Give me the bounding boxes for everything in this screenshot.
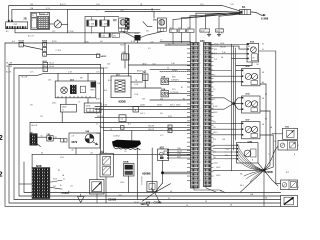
- svg-text:BL-OR: BL-OR: [22, 77, 28, 79]
- fuse 11/4B left: [87, 20, 97, 26]
- cluster sub box: [80, 86, 85, 93]
- svg-text:34/16: 34/16: [134, 202, 139, 204]
- cluster bottom pins: [57, 96, 59, 98]
- wire relay2 diag: [141, 32, 163, 38]
- svg-text:24: 24: [96, 123, 98, 125]
- connector 2/24 box: [6, 22, 28, 29]
- wire vertical x103 long: [103, 68, 105, 153]
- svg-text:2.5: 2.5: [213, 89, 215, 91]
- sub box 11/4B a: [99, 33, 111, 37]
- wire 6/32 right down: [260, 111, 270, 170]
- svg-text:B+: B+: [221, 33, 223, 35]
- wire elbow to chime: [29, 123, 31, 134]
- wire 6/26 right down: [260, 84, 266, 170]
- wire row y73: [19, 73, 143, 75]
- svg-text:I-MA GN 24: I-MA GN 24: [140, 176, 143, 185]
- svg-text:1.5: 1.5: [160, 40, 162, 42]
- wire top feed 2b: [68, 8, 160, 10]
- wire top feed 1: [9, 6, 240, 21]
- svg-text:B3: B3: [265, 119, 267, 121]
- fuse 117: [178, 29, 186, 33]
- wires 6/37 left: [232, 122, 242, 124]
- motor 6/26 box: [242, 69, 261, 86]
- svg-text:4: 4: [200, 54, 201, 56]
- wire from chain C right: [47, 53, 100, 55]
- wire to 2-268: [251, 12, 264, 15]
- svg-text:1.33: 1.33: [96, 72, 99, 74]
- wire bend into 6/28: [31, 154, 33, 167]
- wire diag box1 to chain: [23, 46, 42, 50]
- svg-text:63DB: 63DB: [119, 100, 126, 104]
- junction 24DB box: [135, 35, 141, 41]
- box 7/50: [283, 128, 298, 139]
- connector 64DB sub cells: [87, 108, 100, 112]
- wire fuse drops a: [91, 17, 93, 20]
- wire hatched box up: [96, 154, 98, 179]
- svg-text:1.33: 1.33: [68, 72, 72, 74]
- wire drops to fuses right: [206, 13, 241, 29]
- wire dashed y71: [160, 71, 191, 73]
- motor unit top pins: [247, 44, 249, 46]
- wire 6/28 right 1: [50, 181, 62, 183]
- relay 5/2B2 box: [161, 91, 169, 97]
- sub box 11/2 b: [112, 33, 120, 37]
- cluster pin block: [91, 82, 96, 88]
- wire relay2 right: [169, 93, 191, 95]
- wire 60B top: [105, 152, 107, 154]
- fuse 11/4B right: [100, 20, 110, 26]
- relay 2/60 box: [158, 18, 167, 28]
- junction fan to 5/38 pins: [237, 145, 264, 170]
- wire ladder to bundle c: [211, 81, 236, 83]
- relay 5/2B box: [161, 78, 169, 84]
- wire bundle riser 115: [173, 13, 240, 20]
- wire bundle converge 4: [196, 12, 240, 14]
- svg-text:.40: .40: [71, 150, 73, 152]
- svg-text:24/2B: 24/2B: [140, 105, 145, 107]
- svg-text:4: 4: [200, 153, 201, 155]
- clock box: [47, 136, 53, 141]
- svg-text:34D3: 34D3: [176, 105, 180, 107]
- wire bus1: [5, 42, 191, 44]
- svg-text:GN-GR: GN-GR: [148, 126, 155, 128]
- svg-text:4: 4: [200, 117, 201, 119]
- vertical bundle right 3: [235, 48, 237, 140]
- wire hatched box down: [96, 194, 98, 203]
- box 5/38 pins: [237, 144, 239, 146]
- svg-text:1 1/4B: 1 1/4B: [89, 23, 95, 25]
- wire pump down: [75, 148, 77, 154]
- wire bus1 lower branch: [165, 44, 191, 46]
- cluster gauge dark symbol: [70, 85, 77, 94]
- junction 2200K dot: [263, 169, 266, 172]
- svg-text:24: 24: [110, 129, 112, 131]
- wire 64DC down: [61, 112, 63, 123]
- svg-text:1: 1: [32, 20, 33, 22]
- wire ladder feeds up: [195, 13, 197, 42]
- wire busrow y109: [95, 108, 191, 110]
- wire left bundle 1 / bottom bus 5: [5, 43, 281, 206]
- svg-text:4T: 4T: [96, 113, 98, 115]
- wire left bundle 2 / bottom bus 4: [9, 65, 281, 204]
- pump symbol: [85, 134, 94, 143]
- connector C17/12 black blob: [112, 140, 141, 149]
- svg-text:11/2: 11/2: [113, 36, 116, 38]
- svg-text:X/1: X/1: [96, 10, 99, 12]
- fuse box grid: [37, 17, 49, 29]
- svg-text:24-TR: 24-TR: [177, 151, 182, 153]
- pin sq right b: [168, 129, 172, 132]
- box 4/21 pins: [167, 149, 168, 150]
- motor unit top box: [247, 43, 259, 62]
- relay 2/50 box: [119, 18, 128, 28]
- wire blob up: [131, 131, 133, 141]
- svg-text:-24: -24: [124, 151, 127, 153]
- junction box 1: [19, 42, 23, 47]
- wire chime tail: [37, 144, 40, 146]
- svg-text:2.8: 2.8: [72, 136, 74, 138]
- ground triangle left: [78, 197, 85, 203]
- fuse box 11/32 b: [216, 29, 224, 32]
- svg-text:7-40: 7-40: [120, 10, 123, 12]
- box 60B hatched cell 1: [103, 157, 111, 165]
- svg-text:B1: B1: [181, 87, 183, 89]
- svg-text:7-40: 7-40: [152, 63, 155, 65]
- svg-text:25/1: 25/1: [48, 79, 51, 81]
- svg-text:7/45: 7/45: [143, 71, 147, 74]
- svg-text:11: 11: [32, 15, 34, 17]
- svg-text:1: 1: [244, 100, 245, 102]
- wire vertical x137: [136, 148, 138, 200]
- wire left bundle 4 / bottom bus 2: [19, 75, 281, 196]
- svg-text:30: 30: [205, 201, 207, 203]
- wire 60B down: [105, 177, 107, 203]
- wire left bundle 3 / bottom bus 3: [14, 68, 281, 200]
- wire bundle riser 119: [190, 14, 240, 16]
- wire relay1 right: [169, 80, 191, 82]
- wire long right vertical: [259, 51, 281, 183]
- wire 6/28 right 2: [50, 188, 62, 189]
- connector block dark right of relay1: [125, 18, 130, 30]
- svg-text:T: T: [294, 130, 295, 132]
- svg-text:4: 4: [200, 63, 201, 65]
- svg-text:4: 4: [298, 145, 299, 147]
- vertical bundle right 1: [231, 44, 233, 171]
- wire top feed 3: [105, 11, 240, 14]
- svg-text:4: 4: [200, 135, 201, 137]
- svg-text:4: 4: [200, 72, 201, 74]
- wire bus2b: [14, 67, 104, 69]
- svg-text:B4: B4: [257, 64, 259, 66]
- svg-text:4: 4: [169, 127, 170, 129]
- wire junction down: [263, 170, 265, 206]
- svg-text:B/2: B/2: [6, 31, 9, 33]
- wire clock right: [53, 138, 60, 140]
- svg-text:2.5: 2.5: [168, 43, 170, 45]
- svg-text:4: 4: [200, 108, 201, 110]
- svg-text:GN-OR: GN-OR: [31, 125, 38, 127]
- svg-text:C 102: C 102: [68, 31, 74, 33]
- wire busrow y106: [95, 106, 191, 108]
- svg-text:B-4: B-4: [128, 123, 131, 125]
- wire junction upright: [264, 146, 278, 170]
- svg-text:BL-OR: BL-OR: [6, 72, 12, 74]
- fuse box left cells: [31, 13, 36, 17]
- svg-text:6 RD: 6 RD: [52, 41, 57, 43]
- svg-text:+30: +30: [220, 29, 223, 31]
- svg-text:-24: -24: [90, 153, 93, 155]
- wire cluster drop2: [87, 73, 89, 81]
- wire 26/7 right a: [131, 81, 143, 83]
- svg-text:P-40: P-40: [222, 52, 226, 54]
- svg-text:41: 41: [63, 179, 65, 181]
- box 63/8: [147, 182, 157, 192]
- svg-text:54: 54: [167, 68, 169, 70]
- box 4/21: [158, 149, 169, 161]
- svg-text:M+: M+: [262, 43, 264, 45]
- wire 6/28 left: [19, 183, 32, 185]
- svg-text:24D 3: 24D 3: [140, 113, 145, 115]
- svg-text:68B7: 68B7: [90, 90, 94, 92]
- svg-text:54/1B: 54/1B: [157, 105, 162, 107]
- junction fan right b: [164, 173, 191, 175]
- svg-text:1 1/5B: 1 1/5B: [102, 23, 108, 25]
- box right mid y180: [281, 180, 298, 190]
- wire ladder to bundle a: [211, 69, 232, 71]
- ground arrow bottom: [146, 202, 150, 206]
- motor 6/37 pins: [242, 123, 244, 125]
- wire left bundle 5 / bottom bus 1: [24, 162, 281, 193]
- wire row y65: [128, 64, 190, 66]
- svg-text:R 2.5: R 2.5: [46, 8, 50, 10]
- svg-text:SB-1: SB-1: [240, 185, 244, 187]
- wire ladder bottom stub 1: [194, 187, 225, 193]
- svg-text:2B: 2B: [24, 18, 27, 21]
- svg-text:2/5: 2/5: [113, 21, 116, 23]
- junction chain B: [43, 47, 47, 51]
- box 60B hatched cell 2: [103, 167, 111, 175]
- svg-text:4: 4: [200, 81, 201, 83]
- svg-text:2.5: 2.5: [213, 99, 215, 101]
- wire busrow y117: [95, 117, 191, 119]
- pin pair b: [64, 139, 67, 143]
- svg-text:4: 4: [44, 70, 45, 72]
- wire bus y122.5: [30, 122, 191, 124]
- junction chain C: [43, 52, 47, 56]
- svg-text:BL-GR: BL-GR: [6, 63, 12, 65]
- cluster bulb symbol: [61, 87, 68, 94]
- svg-text:30: 30: [41, 136, 43, 138]
- svg-text:B2: B2: [265, 94, 267, 96]
- wire row y69: [150, 68, 191, 70]
- box right pair y141: [278, 141, 298, 151]
- motor 6/32 pins: [242, 97, 244, 99]
- svg-text:0.75: 0.75: [30, 72, 33, 74]
- wire 630B down: [128, 176, 130, 193]
- svg-text:11/11: 11/11: [40, 13, 44, 15]
- wire busrow y127: [101, 126, 191, 128]
- svg-text:GN-GR: GN-GR: [220, 47, 226, 49]
- fuse 115: [170, 29, 178, 33]
- svg-text:30: 30: [186, 205, 188, 207]
- svg-text:B2: B2: [58, 170, 60, 172]
- svg-text:3479: 3479: [71, 140, 77, 144]
- central electrical unit 6/28: [32, 168, 50, 199]
- connector 2/24 top pins: [8, 20, 10, 22]
- wire cluster drop1: [57, 73, 59, 81]
- wire switch to junction: [61, 23, 67, 25]
- svg-text:15/1: 15/1: [30, 4, 33, 6]
- svg-text:6/2B/4: 6/2B/4: [172, 70, 177, 72]
- vertical bundle right 2: [233, 46, 235, 150]
- svg-text:3: 3: [239, 146, 240, 148]
- wire bundle riser 117: [182, 13, 241, 17]
- wire relay1 diag: [123, 32, 135, 38]
- box bottom right: [281, 196, 298, 207]
- pin pair a: [61, 139, 64, 143]
- relay 2/60 pin cells: [158, 28, 167, 32]
- svg-text:2: 2: [257, 131, 258, 133]
- svg-text:GR-OR: GR-OR: [148, 129, 155, 131]
- svg-text:4: 4: [200, 90, 201, 92]
- svg-text:C5201: C5201: [62, 192, 70, 195]
- svg-text:B+: B+: [60, 185, 62, 187]
- svg-text:64DB: 64DB: [62, 107, 67, 109]
- motor 6/26 pins: [242, 70, 244, 72]
- wire junction up: [258, 163, 264, 170]
- box 5/38: [237, 143, 259, 163]
- ignition switch circle: [54, 21, 61, 28]
- wire fuse drops b: [91, 26, 93, 33]
- wire ladder to bundle e: [211, 104, 234, 110]
- wire bus1 upper branch: [160, 40, 191, 42]
- wire junction downright: [264, 170, 278, 186]
- svg-text:4: 4: [200, 171, 201, 173]
- svg-text:M: M: [253, 58, 255, 60]
- wire row y154: [32, 153, 190, 155]
- fuse box label cell: [40, 12, 49, 15]
- svg-text:2: 2: [257, 78, 258, 80]
- svg-text:B-R 2.5: B-R 2.5: [60, 4, 66, 6]
- wire vertical x67: [67, 9, 69, 33]
- svg-text:D306: D306: [118, 195, 122, 197]
- wire cluster to 64DB: [87, 98, 89, 103]
- wire fuse drops bottom: [172, 33, 174, 43]
- svg-text:C300M: C300M: [108, 198, 116, 201]
- wire junction downleft: [240, 170, 264, 192]
- svg-text:6308B: 6308B: [142, 172, 150, 176]
- svg-text:C 102: C 102: [56, 50, 62, 52]
- wire ladder bottom stub 2: [206, 181, 216, 192]
- wire ladder to bundle h: [211, 134, 236, 136]
- wire relay mid diag: [143, 22, 152, 27]
- wire row y100: [150, 99, 191, 101]
- svg-text:B4: B4: [183, 98, 185, 100]
- wires 6/26 left: [236, 69, 242, 71]
- wire ladder to bundle f: [211, 122, 232, 124]
- wire y16.7: [85, 16, 119, 18]
- junction fan down: [162, 174, 164, 183]
- wire ladder to bundle b: [211, 75, 234, 77]
- module ladder left column: [191, 43, 200, 189]
- junction chain A: [43, 42, 47, 46]
- svg-text:1: 1: [244, 73, 245, 75]
- module ladder right column: [204, 43, 212, 187]
- svg-text:2B/32: 2B/32: [142, 63, 146, 65]
- junction lower fan: [244, 170, 264, 176]
- svg-text:24 (PK)GN: 24 (PK)GN: [170, 92, 179, 94]
- junction 3403C: [97, 54, 100, 58]
- wire fusebox to switch: [50, 23, 55, 25]
- wire ladder right y53: [211, 53, 247, 55]
- wire vertical x128: [127, 45, 129, 76]
- wire ladder to bundle g: [211, 128, 234, 130]
- fan center wires: [142, 183, 162, 201]
- fuse box 11/ outer: [31, 12, 50, 29]
- wire box down: [124, 60, 126, 68]
- box 630B: [124, 164, 135, 177]
- arrow terminal: [263, 14, 266, 16]
- junction dot mid right: [232, 102, 235, 105]
- box 26/7 inner hatched: [115, 80, 125, 92]
- svg-text:(BN): (BN): [172, 77, 176, 79]
- wire top feed 2: [12, 9, 150, 20]
- wire 4/21 down: [162, 161, 164, 173]
- wire motor top bottom: [236, 62, 252, 66]
- junction fan right a: [164, 171, 191, 173]
- svg-text:1.33: 1.33: [150, 41, 153, 43]
- svg-text:(PK): (PK): [172, 89, 176, 91]
- wire chime to clock: [37, 136, 47, 138]
- svg-text:N8: N8: [80, 78, 82, 80]
- junction sq C17B: [119, 115, 126, 122]
- svg-text:2: 2: [257, 106, 258, 108]
- motor 6/32 box: [242, 96, 261, 113]
- svg-text:11/23: 11/23: [216, 31, 220, 33]
- ground symbol a: [208, 32, 210, 34]
- junction sq y127: [121, 126, 125, 130]
- wire B drop: [153, 12, 155, 19]
- svg-text:GN-O: GN-O: [213, 132, 218, 134]
- wire ladder right y44: [211, 44, 247, 46]
- svg-text:64DB: 64DB: [86, 105, 91, 107]
- ladder left pin stubs: [187, 44, 190, 46]
- svg-text:1: 1: [244, 126, 245, 128]
- wire cluster to 64DC: [65, 98, 67, 105]
- pin sq right a: [168, 125, 172, 128]
- svg-text:4: 4: [200, 45, 201, 47]
- svg-text:BL 0.75: BL 0.75: [28, 36, 34, 38]
- svg-text:2-268: 2-268: [261, 17, 269, 21]
- motor 6/37 box: [242, 122, 261, 139]
- wire box up: [124, 43, 126, 54]
- svg-text:24/16: 24/16: [120, 182, 124, 184]
- wire busrow y130: [104, 130, 191, 132]
- connector 2/24 bottom pins: [6, 26, 8, 28]
- svg-text:2: 2: [0, 135, 3, 142]
- junction sq B: [133, 106, 139, 112]
- wire vertical x85: [84, 17, 86, 43]
- wire into 7/50: [272, 133, 283, 135]
- ladder right pin stubs: [211, 44, 213, 46]
- wire 26/7 right b: [131, 87, 161, 89]
- wire fuse drops top: [172, 20, 174, 30]
- wire ladder to bundle d: [211, 98, 234, 104]
- wire ladder right y46: [211, 46, 247, 49]
- svg-text:7-40: 7-40: [171, 63, 175, 65]
- svg-text:1.4: 1.4: [268, 154, 270, 156]
- svg-text:S/1: S/1: [148, 48, 151, 50]
